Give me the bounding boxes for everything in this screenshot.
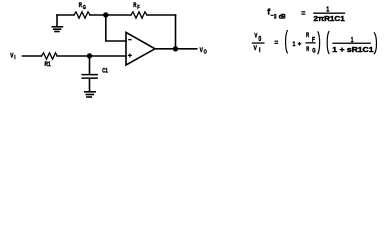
svg-text:R: R: [306, 32, 309, 39]
equation 2: VO/VI = (1 + RF/RG)(1/(1+sR1C1)): [252, 30, 377, 55]
equation 1: f-3dB = 1/(2piR1C1): [267, 5, 345, 23]
svg-text:1: 1: [351, 35, 354, 44]
wire RG to node A: [90, 14, 106, 16]
open paren 1: [286, 30, 288, 53]
capacitor C1: [82, 56, 97, 91]
svg-text:O: O: [204, 50, 208, 56]
svg-text:0: 0: [258, 36, 261, 43]
svg-text:dB: dB: [279, 14, 286, 21]
node A junction dot: [103, 12, 108, 17]
wire node A to RF: [106, 14, 131, 16]
label RG: [79, 3, 86, 11]
minus sign (inverting input): [128, 39, 131, 40]
resistor R1: [42, 53, 58, 59]
svg-text:G: G: [312, 48, 316, 55]
svg-text:I: I: [259, 47, 261, 54]
plus sign (noninverting input): [128, 54, 132, 58]
svg-text:2πR1C1: 2πR1C1: [314, 14, 345, 23]
fraction bar VO/VI: [252, 42, 265, 43]
equals: [275, 41, 279, 43]
ground (below C1): [85, 92, 95, 97]
wire node A down to inverting input: [106, 15, 126, 41]
resistor RG: [74, 12, 90, 18]
fraction bar: [332, 43, 370, 44]
ground (left, at RG): [52, 15, 62, 32]
wire output: [155, 48, 197, 50]
svg-text:1: 1: [326, 5, 329, 14]
svg-text:3: 3: [274, 14, 277, 21]
op-amp U1: [126, 32, 155, 65]
node B junction dot: [87, 53, 92, 58]
output junction dot: [173, 46, 178, 51]
close paren 2: [374, 32, 376, 54]
resistor RF: [131, 12, 147, 18]
svg-text:1 + sR1C1: 1 + sR1C1: [332, 45, 373, 54]
fraction bar RF/RG: [306, 42, 316, 43]
svg-text:R: R: [306, 46, 309, 53]
label RF: [133, 3, 140, 11]
fraction bar: [313, 13, 345, 14]
wire ground to RG: [57, 14, 74, 16]
svg-text:V: V: [254, 33, 257, 40]
svg-text:V: V: [254, 45, 258, 52]
svg-text:1: 1: [293, 41, 296, 48]
wire feedback vertical: [175, 15, 177, 49]
svg-text:C1: C1: [102, 68, 108, 75]
wire RF to feedback corner: [147, 14, 176, 16]
svg-text:R1: R1: [45, 61, 51, 68]
label VI: [10, 54, 16, 61]
label VO: [200, 47, 208, 56]
wire VI to R1: [23, 55, 42, 57]
close paren 1: [318, 31, 320, 54]
open paren 2: [327, 31, 329, 54]
svg-text:G: G: [83, 5, 86, 11]
wire R1 to node B to noninverting input: [57, 55, 126, 57]
equals: [301, 12, 305, 14]
svg-text:V: V: [10, 54, 13, 60]
